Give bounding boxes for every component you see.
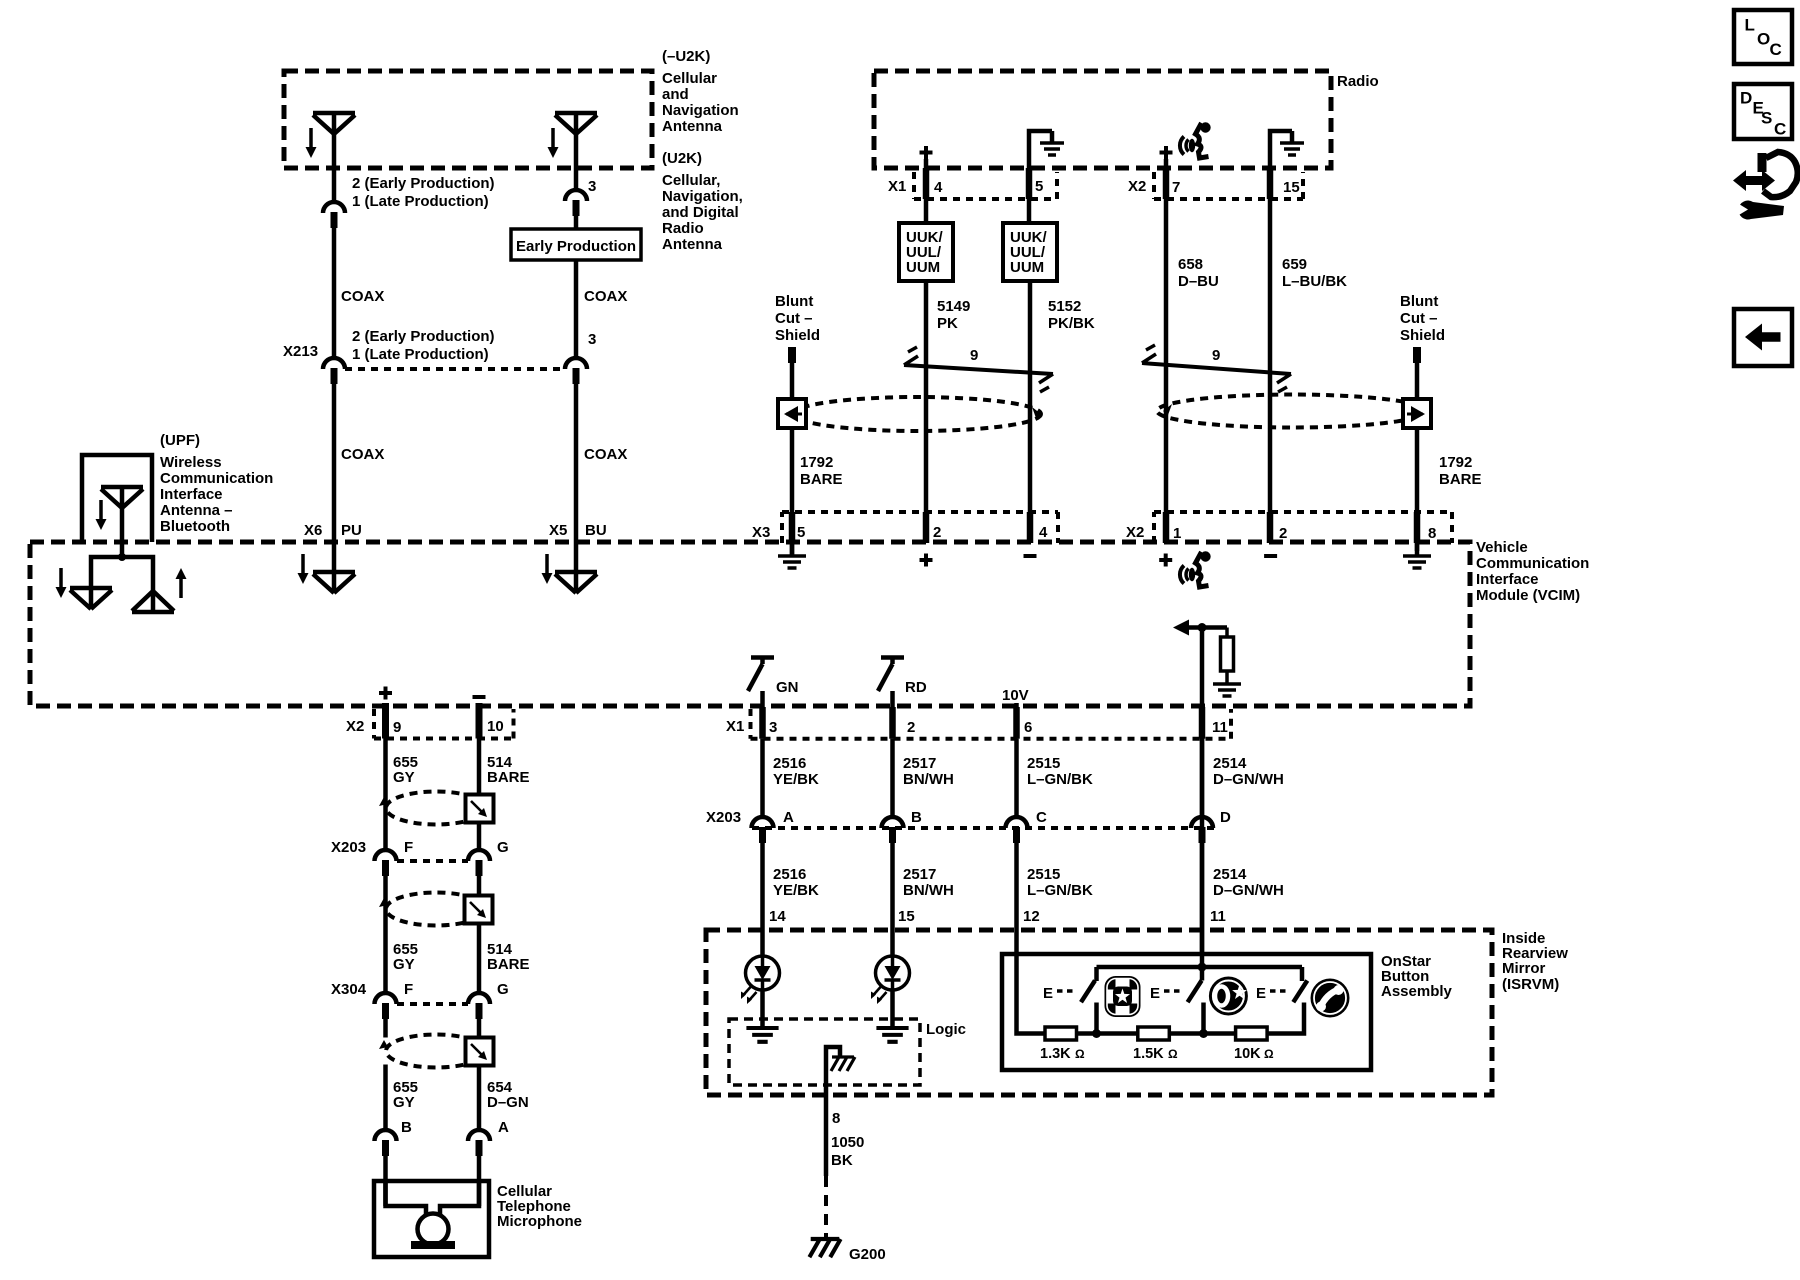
svg-text:9: 9: [393, 719, 401, 736]
svg-text:1.5K: 1.5K: [1133, 1046, 1164, 1062]
svg-text:C: C: [1770, 40, 1782, 59]
svg-text:1792: 1792: [1439, 454, 1472, 471]
svg-text:5152: 5152: [1048, 298, 1081, 315]
svg-text:5149: 5149: [937, 298, 970, 315]
svg-text:Communication: Communication: [1476, 555, 1589, 572]
svg-text:Antenna –: Antenna –: [160, 502, 233, 519]
svg-text:5: 5: [797, 524, 805, 541]
svg-text:BN/WH: BN/WH: [903, 882, 954, 899]
svg-text:5: 5: [1035, 178, 1043, 195]
svg-text:X6: X6: [304, 522, 322, 539]
svg-text:659: 659: [1282, 256, 1307, 273]
svg-text:Radio: Radio: [1337, 73, 1379, 90]
svg-text:2515: 2515: [1027, 755, 1060, 772]
svg-text:Vehicle: Vehicle: [1476, 539, 1528, 556]
svg-text:1 (Late Production): 1 (Late Production): [352, 346, 489, 363]
svg-text:Microphone: Microphone: [497, 1213, 582, 1230]
svg-text:D–GN/WH: D–GN/WH: [1213, 882, 1284, 899]
svg-text:A: A: [498, 1119, 509, 1136]
svg-text:GY: GY: [393, 956, 415, 973]
svg-text:BN/WH: BN/WH: [903, 771, 954, 788]
svg-text:Early Production: Early Production: [516, 238, 636, 255]
svg-text:Ω: Ω: [1264, 1047, 1274, 1061]
svg-text:Cellular,: Cellular,: [662, 172, 720, 189]
svg-text:G: G: [497, 981, 509, 998]
svg-text:Mirror: Mirror: [1502, 960, 1546, 977]
svg-text:Blunt: Blunt: [775, 293, 813, 310]
svg-text:X1: X1: [726, 718, 744, 735]
svg-text:BK: BK: [831, 1152, 853, 1169]
svg-text:F: F: [404, 981, 413, 998]
svg-text:12: 12: [1023, 908, 1040, 925]
svg-text:D–BU: D–BU: [1178, 273, 1219, 290]
svg-text:UUM: UUM: [1010, 259, 1044, 276]
svg-text:11: 11: [1212, 719, 1228, 736]
svg-text:2514: 2514: [1213, 755, 1247, 772]
svg-text:BARE: BARE: [487, 956, 530, 973]
svg-text:(U2K): (U2K): [662, 150, 702, 167]
svg-text:2: 2: [1279, 525, 1287, 542]
svg-text:O: O: [1757, 30, 1770, 49]
svg-text:C: C: [1774, 120, 1786, 139]
svg-text:Blunt: Blunt: [1400, 293, 1438, 310]
svg-text:D–GN: D–GN: [487, 1094, 529, 1111]
svg-text:C: C: [1036, 809, 1047, 826]
svg-text:15: 15: [1283, 179, 1300, 196]
svg-text:1792: 1792: [800, 454, 833, 471]
svg-text:8: 8: [1428, 525, 1436, 542]
svg-text:X2: X2: [346, 718, 364, 735]
svg-text:Radio: Radio: [662, 220, 704, 237]
svg-text:2: 2: [907, 719, 915, 736]
svg-text:Wireless: Wireless: [160, 454, 222, 471]
svg-text:A: A: [783, 809, 794, 826]
svg-text:BARE: BARE: [800, 471, 843, 488]
svg-text:Shield: Shield: [775, 327, 820, 344]
svg-text:Shield: Shield: [1400, 327, 1445, 344]
svg-text:X2: X2: [1128, 178, 1146, 195]
svg-text:Communication: Communication: [160, 470, 273, 487]
svg-text:11: 11: [1210, 908, 1226, 925]
svg-text:3: 3: [769, 719, 777, 736]
svg-text:10: 10: [487, 718, 504, 735]
svg-text:Module (VCIM): Module (VCIM): [1476, 587, 1580, 604]
svg-text:G200: G200: [849, 1246, 886, 1263]
svg-text:4: 4: [934, 179, 943, 196]
svg-text:15: 15: [898, 908, 915, 925]
svg-text:PK: PK: [937, 315, 958, 332]
svg-text:2514: 2514: [1213, 866, 1247, 883]
svg-text:S: S: [1761, 109, 1772, 128]
svg-text:B: B: [401, 1119, 412, 1136]
svg-text:E: E: [1043, 985, 1053, 1002]
svg-text:2: 2: [933, 524, 941, 541]
svg-text:GY: GY: [393, 1094, 415, 1111]
svg-text:X3: X3: [752, 524, 770, 541]
svg-text:PU: PU: [341, 522, 362, 539]
svg-text:L: L: [1745, 16, 1755, 35]
svg-text:and: and: [662, 86, 689, 103]
svg-text:2517: 2517: [903, 755, 936, 772]
svg-text:2517: 2517: [903, 866, 936, 883]
svg-text:2516: 2516: [773, 755, 806, 772]
svg-text:4: 4: [1039, 524, 1048, 541]
svg-text:GN: GN: [776, 679, 799, 696]
svg-text:X203: X203: [706, 809, 741, 826]
svg-text:3: 3: [588, 178, 596, 195]
svg-text:X304: X304: [331, 981, 367, 998]
svg-text:X5: X5: [549, 522, 567, 539]
svg-text:Antenna: Antenna: [662, 236, 723, 253]
svg-text:Ω: Ω: [1075, 1047, 1085, 1061]
svg-text:D: D: [1220, 809, 1231, 826]
svg-text:BU: BU: [585, 522, 607, 539]
svg-text:Bluetooth: Bluetooth: [160, 518, 230, 535]
svg-text:L–GN/BK: L–GN/BK: [1027, 882, 1093, 899]
svg-text:L–GN/BK: L–GN/BK: [1027, 771, 1093, 788]
svg-text:X2: X2: [1126, 524, 1144, 541]
svg-text:2 (Early Production): 2 (Early Production): [352, 328, 495, 345]
svg-text:E: E: [1256, 985, 1266, 1002]
svg-text:COAX: COAX: [584, 446, 627, 463]
svg-text:YE/BK: YE/BK: [773, 882, 819, 899]
svg-text:7: 7: [1172, 179, 1180, 196]
svg-text:2515: 2515: [1027, 866, 1060, 883]
svg-text:YE/BK: YE/BK: [773, 771, 819, 788]
svg-text:PK/BK: PK/BK: [1048, 315, 1095, 332]
svg-text:2516: 2516: [773, 866, 806, 883]
svg-text:(–U2K): (–U2K): [662, 48, 710, 65]
svg-text:6: 6: [1024, 719, 1032, 736]
svg-text:GY: GY: [393, 769, 415, 786]
svg-text:Navigation,: Navigation,: [662, 188, 743, 205]
svg-text:X213: X213: [283, 343, 318, 360]
svg-text:COAX: COAX: [341, 446, 384, 463]
svg-text:X203: X203: [331, 839, 366, 856]
svg-text:Antenna: Antenna: [662, 118, 723, 135]
svg-text:X1: X1: [888, 178, 906, 195]
svg-text:D–GN/WH: D–GN/WH: [1213, 771, 1284, 788]
svg-text:BARE: BARE: [487, 769, 530, 786]
svg-text:COAX: COAX: [341, 288, 384, 305]
svg-text:10K: 10K: [1234, 1046, 1261, 1062]
svg-text:3: 3: [588, 331, 596, 348]
svg-text:1 (Late Production): 1 (Late Production): [352, 193, 489, 210]
svg-text:1.3K: 1.3K: [1040, 1046, 1071, 1062]
svg-text:RD: RD: [905, 679, 927, 696]
svg-text:(UPF): (UPF): [160, 432, 200, 449]
svg-text:Assembly: Assembly: [1381, 983, 1453, 1000]
svg-text:F: F: [404, 839, 413, 856]
svg-text:2 (Early Production): 2 (Early Production): [352, 175, 495, 192]
svg-text:Ω: Ω: [1168, 1047, 1178, 1061]
svg-text:L–BU/BK: L–BU/BK: [1282, 273, 1347, 290]
svg-text:Interface: Interface: [1476, 571, 1539, 588]
svg-text:BARE: BARE: [1439, 471, 1482, 488]
svg-text:(ISRVM): (ISRVM): [1502, 976, 1559, 993]
svg-text:10V: 10V: [1002, 687, 1029, 704]
svg-text:D: D: [1740, 89, 1752, 108]
svg-text:Interface: Interface: [160, 486, 223, 503]
svg-text:Navigation: Navigation: [662, 102, 739, 119]
svg-text:1: 1: [1173, 525, 1181, 542]
svg-text:E: E: [1150, 985, 1160, 1002]
svg-text:COAX: COAX: [584, 288, 627, 305]
svg-text:B: B: [911, 809, 922, 826]
svg-text:8: 8: [832, 1110, 840, 1127]
svg-text:Cut –: Cut –: [775, 310, 813, 327]
svg-text:Logic: Logic: [926, 1021, 966, 1038]
svg-text:and Digital: and Digital: [662, 204, 739, 221]
svg-text:UUM: UUM: [906, 259, 940, 276]
svg-text:9: 9: [970, 347, 978, 364]
svg-text:658: 658: [1178, 256, 1203, 273]
svg-text:Cellular: Cellular: [662, 70, 717, 87]
svg-text:14: 14: [769, 908, 786, 925]
svg-text:G: G: [497, 839, 509, 856]
svg-text:1050: 1050: [831, 1134, 864, 1151]
svg-text:9: 9: [1212, 347, 1220, 364]
svg-text:Cut –: Cut –: [1400, 310, 1438, 327]
